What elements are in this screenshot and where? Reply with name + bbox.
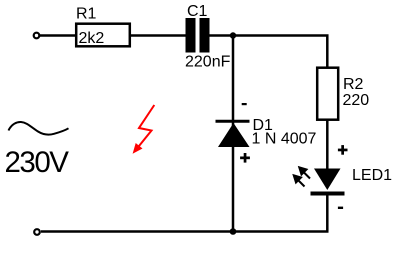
svg-text:220nF: 220nF <box>185 54 231 71</box>
svg-text:220: 220 <box>343 92 370 109</box>
svg-text:2k2: 2k2 <box>79 30 105 47</box>
svg-text:R1: R1 <box>76 6 97 23</box>
svg-text:C1: C1 <box>187 3 208 20</box>
svg-text:R2: R2 <box>343 76 364 93</box>
svg-text:1 N 4007: 1 N 4007 <box>252 131 317 148</box>
svg-text:230V: 230V <box>5 146 70 179</box>
svg-text:LED1: LED1 <box>352 167 392 184</box>
